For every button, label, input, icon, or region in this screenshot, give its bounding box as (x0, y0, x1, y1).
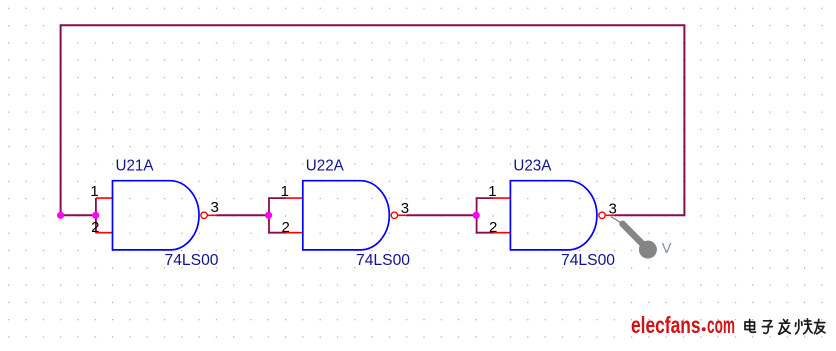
wire feedback loop from U23A output to U21A input (61, 25, 685, 215)
svg-text:74LS00: 74LS00 (165, 252, 219, 269)
inversion bubble U21A (201, 212, 207, 218)
wire U22A output to U23A input (407, 214, 476, 216)
junction node U21A input (92, 212, 99, 219)
wire input riser U21A (95, 198, 97, 233)
pin 1 stub U22A (286, 197, 303, 199)
pin 2 stub U22A (286, 232, 303, 234)
svg-text:2: 2 (91, 219, 99, 236)
probe tip circle (639, 241, 657, 259)
svg-text:74LS00: 74LS00 (561, 252, 615, 269)
probe needle thin (611, 217, 622, 224)
char dian (745, 320, 756, 333)
probe V at U23A output (611, 217, 672, 259)
char zi (762, 321, 772, 334)
pin 2 stub U21A (96, 232, 113, 234)
svg-text:2: 2 (489, 219, 497, 236)
op U23A NAND gate (488, 158, 617, 269)
probe shaft thick (623, 224, 647, 248)
op U22A NAND gate (281, 158, 410, 269)
svg-text:1: 1 (281, 183, 289, 200)
wire U21A output to U22A input (216, 214, 268, 216)
logo separator dot (702, 327, 706, 331)
junction node U23A input (473, 212, 480, 219)
logo chinese characters 电子发烧友 (745, 319, 825, 334)
pin 1 stub U21A (96, 197, 113, 199)
svg-text:com: com (707, 312, 735, 338)
svg-text:U23A: U23A (513, 158, 551, 175)
char you (814, 319, 825, 333)
wire U21A input segment (61, 214, 96, 216)
elecfans.com logo (631, 312, 825, 338)
gate body U23A (510, 181, 597, 250)
char shao (795, 319, 812, 334)
svg-text:3: 3 (211, 199, 219, 216)
pin 1 stub U23A (493, 197, 510, 199)
wire input bracket U23A (477, 198, 494, 233)
svg-text:1: 1 (488, 183, 496, 200)
gate body U21A (113, 181, 200, 250)
char fa (779, 320, 791, 335)
pin 3 stub U21A (207, 214, 216, 216)
svg-text:1: 1 (90, 183, 98, 200)
gate body U22A (303, 181, 390, 250)
inversion bubble U23A (599, 212, 605, 218)
svg-text:U21A: U21A (116, 158, 154, 175)
junction node U22A input (265, 212, 272, 219)
svg-text:2: 2 (281, 219, 289, 236)
pin 3 stub U22A (398, 214, 407, 216)
svg-text:3: 3 (401, 200, 409, 217)
svg-text:elecfans: elecfans (631, 312, 701, 338)
inversion bubble U22A (391, 212, 397, 218)
svg-text:74LS00: 74LS00 (356, 252, 410, 269)
svg-text:U22A: U22A (306, 158, 344, 175)
pin 3 stub U23A (605, 214, 614, 216)
junction node at feedback corner (57, 212, 64, 219)
op U21A NAND gate (90, 158, 218, 269)
wire input bracket U22A (269, 198, 286, 233)
pin 2 stub U23A (493, 232, 510, 234)
svg-text:V: V (662, 241, 672, 257)
svg-text:3: 3 (609, 200, 617, 217)
